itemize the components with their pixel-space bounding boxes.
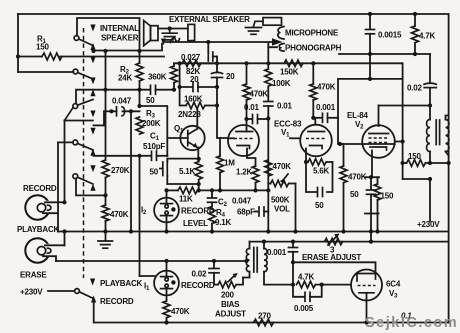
- node: [266, 188, 270, 192]
- resistor 270 bottom: [254, 312, 274, 326]
- transformer bias core: [254, 248, 257, 273]
- node: [244, 61, 248, 65]
- capacitor 68pF: [237, 207, 268, 217]
- jack external speaker: [188, 24, 195, 40]
- tube V2 EL-84 pentode: [362, 106, 402, 178]
- svg-text:100K: 100K: [272, 79, 291, 88]
- node: [103, 88, 107, 92]
- capacitor 20: [212, 72, 236, 81]
- wire y156 left stub: [94, 155, 140, 157]
- svg-text:+230V: +230V: [20, 288, 43, 297]
- node: [215, 61, 219, 65]
- switch contact S3: [73, 104, 78, 109]
- main B+ bus y231.5: [58, 231, 449, 233]
- svg-text:50: 50: [315, 201, 324, 210]
- node: [103, 229, 107, 233]
- wire to microphone jack: [166, 41, 273, 43]
- svg-text:SejkIC.com: SejkIC.com: [365, 315, 458, 331]
- node: [369, 175, 373, 179]
- svg-text:150: 150: [36, 43, 49, 52]
- wire head1 top riser: [64, 121, 66, 203]
- resistor 5.1K: [179, 159, 202, 184]
- node: [428, 103, 432, 107]
- wire input bus y63.3: [174, 62, 403, 64]
- wire phonograph: [268, 43, 277, 48]
- switch arrow down on R1 wire: [90, 57, 95, 64]
- switch blade S5: [78, 177, 94, 184]
- svg-text:470K: 470K: [348, 173, 367, 182]
- svg-text:EXTERNAL SPEAKER: EXTERNAL SPEAKER: [169, 15, 250, 24]
- node: [341, 229, 345, 233]
- node: [62, 229, 66, 233]
- capacitor 0.01 vertical: [264, 102, 293, 119]
- wire record level bus y190.4: [167, 189, 179, 191]
- capacitor 0.01 coupling V1a: [244, 103, 270, 124]
- svg-text:PHONOGRAPH: PHONOGRAPH: [285, 44, 342, 53]
- wire x139.5 to I1: [140, 275, 155, 277]
- resistor 4.7K top: [412, 12, 436, 56]
- svg-text:470K: 470K: [171, 307, 190, 316]
- node: [164, 188, 168, 192]
- internal speaker box: [77, 18, 140, 50]
- node: [215, 103, 219, 107]
- tube V1a triode: [228, 119, 259, 166]
- node R1 left: [16, 54, 20, 58]
- svg-text:20: 20: [226, 72, 235, 81]
- svg-text:200: 200: [221, 291, 234, 300]
- lamp I2: [141, 190, 179, 231]
- node: [172, 88, 176, 92]
- node: [215, 85, 219, 89]
- node EL84 grid: [338, 142, 342, 146]
- switch arrow playback: [90, 279, 95, 286]
- wire 5.1K to 11K: [198, 184, 200, 190]
- wire right edge: [448, 14, 450, 323]
- capacitor 20 feedback: [178, 63, 218, 91]
- switch blade S6: [79, 292, 93, 299]
- wire coupling to EL84 grid: [338, 79, 362, 144]
- svg-text:0.01: 0.01: [244, 103, 260, 112]
- potentiometer 500K VOL: [268, 174, 295, 232]
- external speaker box: [263, 18, 282, 26]
- wire speaker feed: [94, 44, 163, 51]
- resistor 150 EL84 cathode: [374, 177, 394, 213]
- wire left edge vertical: [17, 14, 19, 72]
- svg-text:0.01: 0.01: [277, 102, 293, 111]
- microphone jack: [278, 27, 284, 40]
- resistor 470K grid V1b: [265, 160, 291, 176]
- wire pole5 to 470K: [76, 179, 106, 196]
- wire speaker to ground: [158, 28, 188, 30]
- transformer OPT secondary: [446, 116, 449, 156]
- speaker internal icon: [144, 21, 158, 46]
- svg-text:1M: 1M: [224, 159, 235, 168]
- node: [129, 229, 133, 233]
- switch blade S4: [78, 143, 94, 150]
- wire x430 to 230V: [429, 179, 431, 221]
- svg-text:SPEAKER: SPEAKER: [101, 34, 139, 43]
- node: [103, 49, 107, 53]
- node: [293, 229, 297, 233]
- wire erase to oscillator: [56, 260, 247, 262]
- node: [210, 229, 214, 233]
- resistor 360K: [148, 63, 178, 89]
- svg-text:470K: 470K: [250, 90, 269, 99]
- node: [253, 188, 257, 192]
- jack spring contact: [171, 38, 180, 42]
- svg-text:160K: 160K: [184, 95, 203, 104]
- node: [369, 240, 373, 244]
- svg-text:6C4: 6C4: [386, 280, 401, 289]
- wire top bus: [18, 13, 449, 15]
- resistor R2 24K: [118, 51, 143, 104]
- transformer bias primary: [243, 242, 250, 278]
- svg-text:+230V: +230V: [417, 220, 440, 229]
- resistor 160K: [180, 87, 217, 109]
- transformer bias secondary: [262, 240, 293, 285]
- wire x268.3 long: [267, 119, 269, 232]
- node: [129, 109, 133, 113]
- svg-text:RECORD: RECORD: [100, 297, 134, 306]
- node: [368, 77, 372, 81]
- node: [266, 229, 270, 233]
- svg-text:510pF: 510pF: [143, 142, 165, 151]
- arrowhead mic line: [272, 38, 283, 45]
- record-playback head 1: [25, 195, 64, 219]
- svg-text:68pF: 68pF: [237, 208, 255, 217]
- svg-text:ECC-83: ECC-83: [274, 120, 302, 129]
- switch blade S2: [78, 73, 93, 80]
- svg-text:PLAYBACK: PLAYBACK: [100, 279, 143, 288]
- switch arrow pole2: [90, 78, 95, 85]
- resistor 1M: [217, 138, 236, 190]
- capacitor C1 510pF: [137, 151, 167, 160]
- svg-text:150K: 150K: [280, 68, 299, 77]
- node: [210, 188, 214, 192]
- switch arrow mid down: [90, 111, 95, 118]
- svg-text:9.1K: 9.1K: [215, 218, 232, 227]
- svg-text:0.005: 0.005: [294, 304, 314, 313]
- wire head1 top stub: [65, 120, 93, 122]
- switch contact S1: [74, 36, 79, 41]
- wire ext box to ground: [254, 21, 264, 26]
- svg-text:0.02: 0.02: [192, 270, 208, 279]
- node: [168, 26, 172, 30]
- switch arrow pole5 up: [90, 184, 95, 191]
- wire 0.047 stub: [94, 124, 105, 126]
- svg-text:4.7K: 4.7K: [298, 273, 315, 282]
- switch arrow pole3 up: [90, 89, 95, 96]
- capacitor 0.047 input: [104, 97, 140, 126]
- svg-text:PLAYBACK: PLAYBACK: [17, 225, 60, 234]
- svg-text:470K: 470K: [273, 162, 292, 171]
- wire x377.5 to bus: [377, 214, 379, 232]
- node: [428, 177, 432, 181]
- switch contact S2: [73, 69, 78, 74]
- node: [197, 188, 201, 192]
- svg-text:0.001: 0.001: [316, 103, 336, 112]
- node: [164, 229, 168, 233]
- wire 6C4 plate feedback: [293, 262, 376, 273]
- lamp I1: [144, 261, 179, 301]
- node: [91, 49, 95, 53]
- node: [137, 49, 141, 53]
- resistor 470K EL84 grid: [340, 144, 367, 232]
- node cathode V1b: [304, 160, 308, 164]
- wire phono feed B+: [339, 53, 430, 55]
- wire x402.6 down: [402, 63, 404, 179]
- switch arrow record: [91, 296, 96, 303]
- svg-text:200K: 200K: [142, 119, 161, 128]
- wire S3 to head1: [65, 107, 74, 120]
- node: [164, 259, 168, 263]
- ground external speaker: [246, 28, 262, 35]
- switch arrow down: [90, 165, 95, 172]
- svg-text:ERASE: ERASE: [20, 271, 47, 280]
- switch blade S3: [78, 100, 94, 106]
- svg-text:ERASE ADJUST: ERASE ADJUST: [302, 253, 361, 262]
- resistor 470K plate V1a: [243, 63, 268, 119]
- svg-text:500K: 500K: [271, 196, 290, 205]
- resistor 11K: [178, 187, 268, 203]
- svg-text:50: 50: [146, 96, 155, 105]
- resistor 150K: [280, 60, 303, 77]
- wire x131: [130, 111, 132, 231]
- resistor R3 200K box: [136, 104, 167, 156]
- svg-text:11K: 11K: [179, 195, 193, 204]
- capacitor 0.001 coupling: [311, 103, 338, 122]
- svg-text:470K: 470K: [110, 210, 129, 219]
- node: [218, 188, 222, 192]
- resistor 100K: [265, 47, 291, 101]
- node: [137, 88, 141, 92]
- wire x139.5 lower: [139, 156, 141, 276]
- capacitor 0.02 bias: [192, 259, 220, 285]
- wire head column x58: [57, 142, 59, 231]
- capacitor 0.027: [181, 40, 217, 62]
- resistor 82K: [180, 60, 217, 84]
- wire 230V feed: [48, 290, 74, 292]
- node: [178, 61, 182, 65]
- switch contact S6: [75, 289, 80, 294]
- capacitor 50: [146, 85, 174, 105]
- svg-text:5.1K: 5.1K: [179, 167, 196, 176]
- phonograph jack: [279, 44, 284, 52]
- resistor 1.2K: [236, 166, 259, 190]
- switch blade S1: [79, 39, 93, 46]
- wire screen feed y78.9: [338, 78, 403, 80]
- svg-text:2N228: 2N228: [178, 110, 201, 119]
- ground head network: [98, 241, 113, 248]
- wire y89.7 with 50 cap: [76, 90, 150, 103]
- capacitor 0.001 erase: [267, 240, 298, 287]
- erase head 2: [25, 238, 64, 262]
- svg-text:1.2K: 1.2K: [236, 168, 253, 177]
- potentiometer 3 erase adjust: [325, 234, 343, 255]
- svg-text:150: 150: [381, 192, 394, 201]
- node 470K top: [103, 193, 107, 197]
- ground internal speaker: [162, 29, 177, 40]
- resistor 470K head: [102, 195, 129, 241]
- svg-text:5.6K: 5.6K: [313, 167, 330, 176]
- resistor 470K I1: [163, 301, 190, 325]
- svg-text:INTERNAL: INTERNAL: [100, 24, 139, 33]
- wire EL84 cathode: [365, 176, 379, 178]
- svg-text:470K: 470K: [317, 83, 336, 92]
- wire x371 to bias: [370, 214, 372, 242]
- node EL84 plate right: [401, 139, 405, 143]
- dashed switch gang line: [83, 28, 85, 278]
- svg-text:ADJUST: ADJUST: [215, 310, 246, 319]
- svg-text:50: 50: [350, 190, 359, 199]
- wire x217 grid line: [217, 57, 228, 139]
- tube V3 6C4: [351, 270, 382, 325]
- potentiometer 200 bias adjust: [215, 273, 246, 319]
- svg-text:VOL: VOL: [274, 205, 290, 214]
- capacitor 0.02 top: [407, 83, 436, 92]
- capacitor 0.005: [293, 285, 322, 313]
- svg-text:LEVEL: LEVEL: [183, 219, 208, 228]
- tube V1b triode: [290, 118, 332, 162]
- svg-text:MICROPHONE: MICROPHONE: [285, 29, 339, 38]
- node: [311, 61, 315, 65]
- svg-text:0.001: 0.001: [267, 248, 287, 257]
- svg-text:RECORD: RECORD: [181, 281, 215, 290]
- svg-text:270: 270: [258, 312, 271, 321]
- node: [375, 229, 379, 233]
- svg-text:BIAS: BIAS: [221, 300, 240, 309]
- svg-text:24K: 24K: [118, 74, 132, 83]
- wire plate to OPT: [379, 105, 431, 107]
- resistor 5.6K with 50 cap loop: [306, 159, 333, 210]
- resistor 270K: [102, 51, 130, 195]
- switch arrow down: [90, 128, 95, 135]
- svg-text:270K: 270K: [111, 166, 130, 175]
- wire pole2 stub: [18, 71, 74, 73]
- resistor R1 150: [18, 35, 164, 61]
- switch arrow up pole1: [90, 43, 95, 50]
- svg-text:50: 50: [150, 168, 159, 177]
- node: [244, 259, 248, 263]
- wire record throw to bottom bus: [94, 300, 449, 323]
- transformer OPT primary: [427, 54, 430, 163]
- transistor Q1 2N228: [167, 109, 204, 159]
- capacitor C2 and resistor R4 9.1K: [208, 190, 252, 231]
- svg-text:0.02: 0.02: [407, 84, 423, 93]
- emitter loop 50 / 5.1K: [150, 157, 201, 186]
- wire y179: [403, 178, 430, 180]
- svg-text:4.7K: 4.7K: [419, 32, 436, 41]
- wire head2 top riser: [64, 232, 66, 246]
- resistor 4.7K erase: [297, 273, 352, 288]
- wire cathode bottom: [365, 213, 379, 215]
- node: [369, 229, 373, 233]
- capacitor 50 EL84 cathode: [350, 177, 376, 213]
- wire S4 left: [58, 141, 73, 143]
- capacitor 0.0015: [366, 12, 403, 79]
- switch contact S4: [73, 140, 78, 145]
- transformer OPT core: [436, 120, 439, 145]
- switch contact S5: [73, 174, 78, 179]
- switch arrow pole4 up: [90, 149, 95, 156]
- svg-text:0.047: 0.047: [112, 97, 132, 106]
- node: [266, 61, 270, 65]
- wire erase osc top: [250, 241, 449, 243]
- resistor 470K plate V1b: [310, 63, 336, 118]
- svg-text:RECORD: RECORD: [23, 184, 57, 193]
- svg-text:0.047: 0.047: [232, 197, 252, 206]
- svg-text:EL-84: EL-84: [347, 111, 369, 120]
- svg-text:360K: 360K: [148, 73, 167, 82]
- switch arrow internal speaker: [90, 25, 95, 32]
- resistor 150 OPT: [401, 152, 451, 166]
- arrowhead speaker jack: [161, 39, 166, 46]
- svg-text:0.0015: 0.0015: [378, 31, 402, 40]
- svg-text:150: 150: [408, 152, 421, 161]
